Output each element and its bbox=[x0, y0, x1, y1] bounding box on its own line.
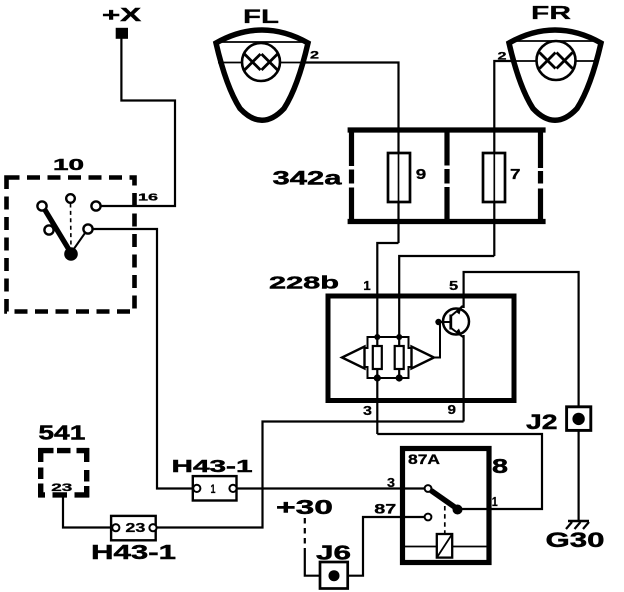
switch S contacts bbox=[37, 194, 100, 234]
relay common dot bbox=[453, 505, 463, 515]
wire J2 to ground bbox=[577, 430, 579, 520]
wire pin 9 to connector chain bbox=[157, 422, 464, 528]
svg-text:1: 1 bbox=[211, 484, 216, 496]
svg-text:+X: +X bbox=[102, 5, 141, 25]
svg-text:8: 8 bbox=[492, 455, 508, 478]
wire pin1 through resistor to pin3 bbox=[376, 296, 378, 434]
transistor Q1 bbox=[443, 305, 469, 338]
fuse 9 bbox=[388, 153, 410, 202]
lamp FR bbox=[509, 2, 601, 120]
svg-text:3: 3 bbox=[363, 404, 372, 418]
switch contact arm bbox=[71, 233, 85, 253]
svg-text:3: 3 bbox=[387, 475, 395, 490]
junction dots bbox=[374, 334, 380, 340]
svg-text:23: 23 bbox=[125, 520, 145, 535]
relay pin 87 contact bbox=[425, 514, 432, 521]
svg-text:23: 23 bbox=[51, 482, 72, 494]
svg-text:87A: 87A bbox=[408, 452, 440, 467]
switch lever bbox=[45, 210, 71, 253]
wire J6 to relay pin 87 bbox=[348, 517, 425, 576]
wire pin 5 through transistor to pin 9 bbox=[463, 296, 465, 308]
wire pin 3 to relay pin 1 bbox=[377, 434, 542, 509]
diode arrow right bbox=[412, 347, 435, 369]
wire H43-1 to relay pin 3 bbox=[237, 487, 426, 489]
relay lever bbox=[431, 491, 456, 509]
relay internal bus bbox=[405, 546, 487, 548]
transistor base dot bbox=[435, 319, 441, 325]
svg-text:342a: 342a bbox=[273, 168, 344, 190]
ground G30 bbox=[546, 521, 605, 552]
relay pin 3 contact bbox=[425, 485, 432, 492]
wire +30 to J6 bbox=[305, 552, 320, 576]
svg-text:228b: 228b bbox=[269, 273, 339, 293]
wire through fuse 7 bbox=[493, 132, 495, 256]
box 541 bbox=[38, 421, 89, 497]
wire fuse 9 to 228b pin 1 bbox=[377, 243, 398, 296]
wire to resistor 2 bbox=[398, 296, 400, 378]
relay coil bbox=[437, 534, 452, 558]
wire 541 to H43-1 bbox=[63, 495, 112, 528]
svg-text:7: 7 bbox=[510, 167, 521, 183]
svg-text:1: 1 bbox=[492, 494, 498, 509]
svg-text:87: 87 bbox=[374, 501, 396, 517]
switch dashed actuator bbox=[70, 204, 73, 251]
svg-text:9: 9 bbox=[448, 403, 457, 417]
svg-text:5: 5 bbox=[449, 279, 458, 293]
svg-text:FR: FR bbox=[531, 2, 571, 23]
switch 10 dashed box bbox=[7, 178, 135, 312]
svg-text:9: 9 bbox=[416, 167, 427, 183]
fuse 7 bbox=[483, 153, 505, 202]
resistor network rails bbox=[365, 337, 412, 378]
fusebox 342a outline bbox=[348, 128, 546, 225]
svg-text:1: 1 bbox=[363, 279, 371, 293]
svg-text:+30: +30 bbox=[276, 496, 333, 519]
svg-text:10: 10 bbox=[53, 157, 84, 174]
wire +X to switch contact 16 bbox=[101, 38, 175, 206]
svg-text:541: 541 bbox=[38, 421, 85, 444]
svg-text:16: 16 bbox=[138, 193, 159, 204]
svg-text:G30: G30 bbox=[546, 528, 605, 552]
wire switch to H43-1 pin 1 bbox=[93, 229, 193, 489]
node +X bbox=[102, 5, 141, 39]
connector H43-1 (1) bbox=[172, 456, 254, 501]
wire fuse 7 to 228b bbox=[399, 256, 494, 296]
wire pin 5 to J2 bbox=[464, 272, 579, 407]
svg-text:J2: J2 bbox=[526, 411, 558, 434]
connector H43-1 (23) bbox=[91, 516, 176, 564]
fusebox divider bbox=[444, 128, 449, 225]
relay actuator dashed bbox=[444, 506, 446, 534]
wire FL to fuse 9 bbox=[305, 63, 399, 133]
relay 8 box bbox=[403, 449, 490, 563]
resistor R1 bbox=[373, 346, 382, 369]
wire through fuse 9 bbox=[397, 132, 399, 243]
relay box 228b bbox=[328, 296, 514, 401]
switch pivot dot bbox=[64, 247, 78, 261]
dashed feed +30 bbox=[304, 518, 306, 552]
diode arrow left bbox=[342, 347, 365, 369]
lamp FL bbox=[216, 7, 308, 120]
svg-text:FL: FL bbox=[243, 7, 279, 28]
wire arrow to transistor base bbox=[434, 322, 450, 358]
wire FR to fuse 7 bbox=[494, 61, 512, 132]
resistor R2 bbox=[395, 346, 404, 369]
svg-text:H43-1: H43-1 bbox=[91, 541, 176, 564]
connector J6 bbox=[316, 543, 351, 589]
connector J2 bbox=[526, 407, 591, 434]
svg-text:H43-1: H43-1 bbox=[172, 456, 254, 476]
svg-text:2: 2 bbox=[310, 50, 319, 62]
